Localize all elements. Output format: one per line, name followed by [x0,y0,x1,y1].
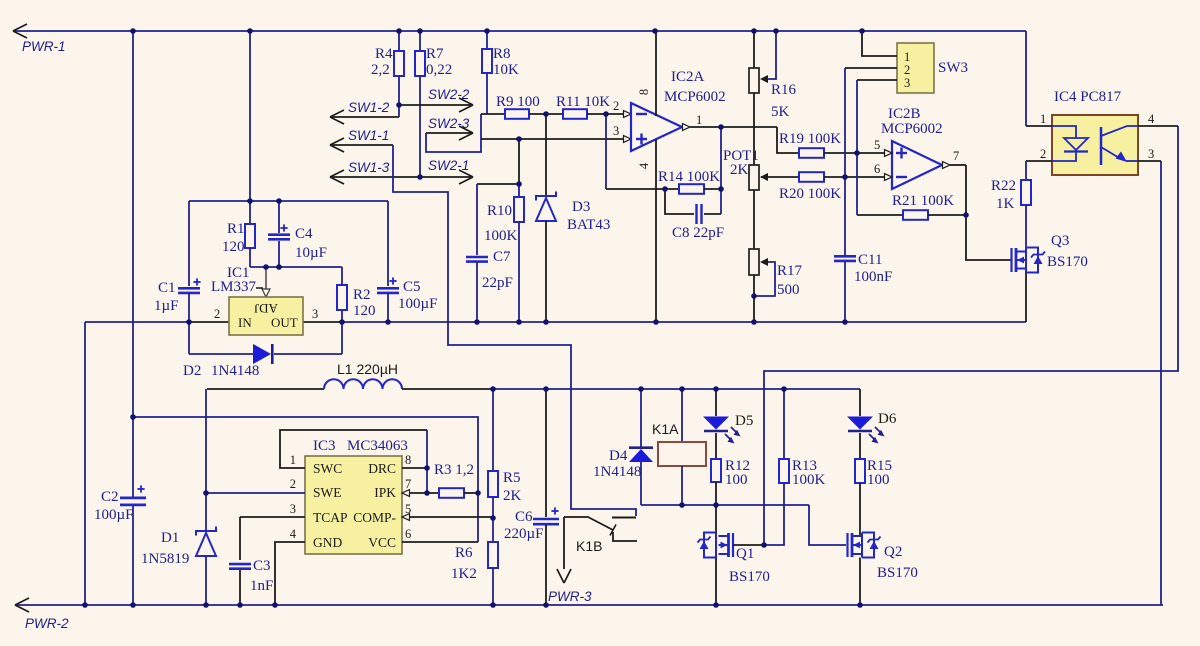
svg-text:L1 220µH: L1 220µH [337,361,398,377]
junction dots gate line [679,502,685,508]
wire SW3 pin 1 [862,31,897,56]
svg-text:3: 3 [312,307,318,321]
svg-text:C1: C1 [158,280,176,296]
pin 7 output IC2B [943,162,951,169]
wire Q1 gate [733,544,764,546]
svg-text:7: 7 [953,149,959,163]
svg-text:C8 22pF: C8 22pF [672,225,724,241]
svg-text:R21 100K: R21 100K [892,193,954,209]
arrow PWR-1 [13,24,27,31]
svg-text:MC34063: MC34063 [347,438,408,454]
wire node to C7/R10 [518,139,520,184]
wire top power bus PWR-1 [13,30,1026,32]
svg-text:MCP6002: MCP6002 [881,121,943,137]
svg-text:7: 7 [405,477,411,491]
svg-text:R8: R8 [493,46,511,62]
wire IC3 pin4 GND [275,542,305,605]
svg-text:R6: R6 [455,545,473,561]
svg-text:Q2: Q2 [884,544,902,560]
ADJ pin arrow [265,267,267,289]
svg-text:120: 120 [222,239,245,255]
wire IC3 pin6 VCC [402,541,478,543]
capacitor C6 [545,389,547,517]
svg-text:SW1-2: SW1-2 [348,100,390,115]
wire IC3 pin1 SWC loop [280,430,427,468]
svg-text:500: 500 [777,282,800,298]
svg-text:1K: 1K [996,196,1015,212]
pin 4 IC2A [655,139,657,322]
junction dots comparator nodes [854,150,860,156]
svg-text:BS170: BS170 [729,569,770,585]
resistor R16 trimmer [753,31,755,68]
relay coil K1A [681,389,683,442]
wire R14 node [606,188,679,190]
wire IC3 pin5 COMP- with arrow [402,514,410,521]
svg-text:SW1-3: SW1-3 [348,160,390,175]
wire Q1 source to bus [715,558,717,606]
resistor R13 [783,389,785,459]
resistor R12 [711,459,721,482]
svg-text:D3: D3 [572,199,590,215]
svg-text:R11 10K: R11 10K [556,94,610,110]
net stub SW1-3 / SW2-1 [331,176,473,178]
svg-text:5: 5 [874,138,880,152]
svg-text:DRC: DRC [368,461,396,476]
svg-text:100nF: 100nF [854,269,892,285]
capacitor C5 [387,201,389,286]
svg-text:SW1-1: SW1-1 [348,128,389,143]
svg-text:10K: 10K [493,62,519,78]
svg-text:3: 3 [904,76,910,90]
svg-text:1K2: 1K2 [451,566,477,582]
svg-text:R20 100K: R20 100K [779,186,841,202]
svg-text:IC2B: IC2B [888,106,921,122]
svg-text:OUT: OUT [271,315,298,330]
wire IC4 pin3 right vertical to bottom bus [1160,161,1162,605]
pin 3 arrow IC2A [624,136,632,143]
net stub SW1-1 [331,144,393,146]
svg-text:100µF: 100µF [94,507,134,523]
inductor L1 [207,388,324,390]
svg-text:100: 100 [867,472,890,488]
svg-text:GND: GND [313,535,342,550]
svg-text:1N5819: 1N5819 [141,551,189,567]
resistor R2 [341,267,343,285]
svg-text:PWR-1: PWR-1 [22,39,66,54]
svg-text:2: 2 [214,307,220,321]
wire IC3 pin7 IPK with arrow [402,490,410,497]
junction dots bottom bus [82,602,88,608]
junction dots regulator loop [247,198,253,204]
capacitor C1 [188,201,190,286]
svg-text:1nF: 1nF [250,578,273,594]
resistor R1 [249,201,251,224]
wire Q2 source to bus [859,558,861,606]
pin 2 arrow IC2A [624,111,632,118]
svg-text:TCAP: TCAP [313,510,348,525]
svg-text:Q3: Q3 [1051,233,1069,249]
svg-text:SW2-1: SW2-1 [428,158,469,173]
wire D1 branch vertical x206 [205,389,207,531]
svg-text:D6: D6 [878,411,897,427]
svg-text:IPK: IPK [374,485,396,500]
svg-text:D2: D2 [183,363,201,379]
svg-text:220µF: 220µF [504,526,544,542]
diode D4 1N4148 [640,389,642,449]
svg-text:22pF: 22pF [482,275,513,291]
op-amp IC2B [892,141,942,189]
svg-text:4: 4 [1148,112,1155,126]
svg-text:3: 3 [1148,147,1154,161]
svg-text:120: 120 [353,303,376,319]
wire output to R19 [777,127,799,153]
svg-text:2K: 2K [503,488,522,504]
wire SW3 pin3 net vertical x857 [856,80,858,215]
wire to Q2 gate [809,505,846,545]
wire IC3 pin3 TCAP [240,516,305,518]
wire IC3 pin8 DRC [402,467,427,469]
pin 5 arrow IC2B [885,150,893,157]
op-amp IC2A [631,103,682,151]
svg-text:1: 1 [1040,112,1046,126]
resistor R21 feedback [857,214,903,216]
svg-text:R4: R4 [375,46,393,62]
wire IC3 pin2 SWE [206,492,305,494]
wire output node vertical x721 [720,127,722,214]
svg-text:100µF: 100µF [398,296,438,312]
svg-text:VCC: VCC [368,535,396,550]
svg-text:R10: R10 [487,203,512,219]
wire VCC feed line y417 [133,417,478,542]
capacitor C7 [476,184,478,255]
svg-text:R9 100: R9 100 [496,94,540,110]
wire x250 from top bus [249,31,251,201]
wire gate feed line y505 [641,504,809,506]
diode D1 1N5819 [196,533,216,556]
svg-text:SW2-3: SW2-3 [428,116,470,131]
wire Q3 source to bus [1025,273,1027,323]
pin 3 IC4 [1138,160,1161,162]
svg-text:4: 4 [290,527,297,541]
wire ADJ node [250,266,342,268]
LED D6 [859,389,861,416]
junction dots SW lines [396,102,402,108]
junction dots relay bus [490,386,496,392]
wire x427 vertical [426,430,428,493]
svg-text:100K: 100K [792,472,826,488]
net stub SW1-2 [331,116,399,118]
svg-text:BAT43: BAT43 [567,217,610,233]
net stub SW2-2 [400,104,473,106]
svg-text:K1A: K1A [652,421,679,437]
svg-text:1: 1 [290,453,296,467]
transistor Q3 BS170 [1010,248,1012,272]
wire IC4 pin4 path to Q1 gate node [764,126,1178,545]
wire main middle bus y322 [85,321,189,323]
svg-text:ADJ: ADJ [254,301,278,316]
svg-text:C2: C2 [101,489,119,505]
connector SW3 [897,43,934,93]
svg-text:PWR-2: PWR-2 [25,616,69,631]
resistor R11 [563,109,587,119]
svg-text:3: 3 [613,124,619,138]
svg-text:2K: 2K [730,162,749,178]
svg-text:R16: R16 [771,82,797,98]
svg-text:C6: C6 [515,509,533,525]
svg-text:K1B: K1B [576,538,602,554]
junction dots top bus [130,28,136,34]
svg-text:SWC: SWC [313,461,342,476]
svg-text:PWR-3: PWR-3 [548,589,592,604]
potentiometer POT1 [749,165,759,190]
svg-text:1: 1 [696,113,702,127]
capacitor C2 [120,496,146,499]
pin 4 IC4 [1138,125,1178,127]
svg-text:1N4148: 1N4148 [211,363,259,379]
capacitor C3 [239,517,241,560]
arrow PWR-3 [557,569,564,583]
svg-text:2: 2 [1040,147,1046,161]
resistor R14 [679,184,704,194]
wire regulator top loop [189,200,388,202]
diode D3 BAT43 [545,114,547,196]
junction dots opamp input network [543,111,549,117]
svg-text:BS170: BS170 [1047,254,1088,270]
transistor Q2 BS170 [846,533,848,557]
wire right drop to IC4 pin1 [1025,31,1027,126]
regulator IC1 LM337 [229,297,303,335]
capacitor C8 [665,189,694,214]
svg-text:1: 1 [904,50,910,64]
wire SW2-3 connector [426,114,481,152]
resistor R9 [481,113,505,115]
svg-text:COMP-: COMP- [353,510,396,525]
svg-text:C11: C11 [858,252,882,268]
svg-text:C7: C7 [493,249,511,265]
resistor R10 [518,184,520,197]
svg-text:4: 4 [637,162,651,169]
wire SW3 pin 3 [857,79,897,81]
svg-text:100: 100 [725,472,748,488]
svg-text:R22: R22 [991,178,1016,194]
resistor R15 [855,459,865,483]
svg-text:R7: R7 [426,46,444,62]
net stub SW2-3 [426,132,473,134]
wire output IC2B to Q3 gate [966,165,1011,260]
svg-text:100K: 100K [484,228,518,244]
svg-text:BS170: BS170 [877,565,918,581]
svg-text:2: 2 [904,63,910,77]
diode D2 [189,353,253,355]
pin 2 IC4 [1026,160,1052,162]
svg-text:IN: IN [238,315,252,330]
resistor R6 [488,542,498,568]
svg-text:IC2A: IC2A [671,69,705,85]
svg-text:C3: C3 [253,558,271,574]
svg-text:8: 8 [637,89,651,95]
svg-text:D4: D4 [609,448,628,464]
pin 1 IC4 [1026,125,1052,127]
svg-text:R3 1,2: R3 1,2 [434,462,474,478]
resistor R8 [486,31,488,49]
resistor R20 [761,176,799,178]
resistor R19 [799,148,824,158]
optocoupler IC4 PC817 [1052,115,1138,175]
svg-text:2,2: 2,2 [371,62,390,78]
wire SW1-1 to relay contact K1B [393,145,636,516]
svg-text:R5: R5 [503,470,521,486]
resistor R3 [439,488,464,498]
svg-text:LM337: LM337 [211,279,257,295]
pin 8 IC2A [655,31,657,116]
svg-text:6: 6 [405,527,411,541]
svg-text:5K: 5K [771,104,790,120]
resistor R4 [398,31,400,51]
pin 6 arrow IC2B [885,174,893,181]
wire left vertical x85 with corner [84,322,86,605]
junction dots middle bus [186,319,192,325]
svg-text:R19 100K: R19 100K [779,131,841,147]
junction dots IC3 nodes [424,465,430,471]
pin 1 output IC2A [683,124,691,131]
wire noninverting input y139 [481,138,624,140]
wire to PWR-3 [563,517,565,569]
wire bottom power bus PWR-2 [15,604,1163,606]
capacitor C4 [278,201,280,233]
wire inverting node vertical x606 [605,114,607,189]
svg-text:6: 6 [874,162,880,176]
svg-text:MCP6002: MCP6002 [664,89,726,105]
trimmer R17 [749,249,759,275]
svg-text:R2: R2 [353,287,371,303]
resistor R5 [492,389,494,471]
svg-text:D1: D1 [161,530,179,546]
arrow PWR-2 [15,598,29,605]
svg-text:IC4 PC817: IC4 PC817 [1054,89,1122,105]
svg-text:Q1: Q1 [736,546,754,562]
transistor Q1 BS170 mirrored [732,533,734,557]
svg-text:SW3: SW3 [938,60,968,76]
relay contact K1B [612,517,636,519]
svg-text:C4: C4 [295,226,313,242]
svg-text:R1: R1 [227,221,245,237]
svg-text:IC3: IC3 [313,438,336,454]
svg-text:1µF: 1µF [154,298,179,314]
wire SW3 pin2 net vertical x845 [844,68,846,255]
svg-text:10µF: 10µF [295,245,327,261]
svg-text:0,22: 0,22 [426,62,452,78]
converter IC3 MC34063 [305,456,402,554]
svg-text:SW2-2: SW2-2 [428,87,470,102]
svg-text:C5: C5 [403,279,421,295]
svg-text:8: 8 [405,453,411,467]
wire left vertical column x133 [132,31,134,498]
svg-text:SWE: SWE [313,485,342,500]
junction dots opamp output node [718,124,724,130]
svg-text:2: 2 [613,99,619,113]
svg-text:3: 3 [290,502,296,516]
svg-text:1N4148: 1N4148 [593,464,641,480]
wire SW3 pin 2 [845,67,897,69]
resistor R7 [419,31,421,51]
svg-text:R17: R17 [777,263,803,279]
junction dots vcc line [130,414,136,420]
LED D5 [715,389,717,416]
wire relay bus y389 [490,388,860,390]
svg-text:2: 2 [290,477,296,491]
svg-text:R14 100K: R14 100K [658,169,720,185]
capacitor C11 [834,255,856,258]
resistor R22 [1025,161,1027,180]
svg-text:D5: D5 [735,413,753,429]
